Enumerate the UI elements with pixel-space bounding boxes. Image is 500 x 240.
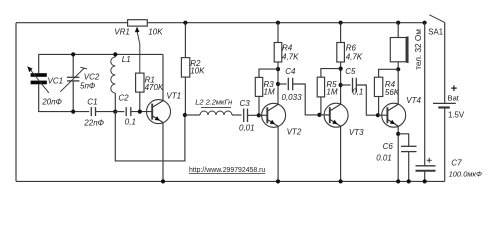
label R4 [282, 43, 293, 52]
svg-text:100.0мкФ: 100.0мкФ [449, 170, 482, 179]
node L1 top junction [113, 52, 117, 56]
label Bat [448, 94, 460, 103]
label C4 [285, 67, 296, 76]
capacitor C7 (electrolytic, polarity +) [416, 158, 436, 171]
svg-text:VR1: VR1 [114, 28, 130, 37]
svg-text:0,01: 0,01 [239, 123, 255, 132]
label R5 value 1M [326, 87, 337, 96]
node C7 ground junction [423, 179, 427, 183]
label VT2 [287, 128, 302, 137]
wire C6 bottom lead [408, 152, 410, 182]
svg-text:0.01: 0.01 [376, 153, 392, 162]
label C2 value 0,1 [125, 117, 136, 126]
wire VT2 base wire [259, 114, 268, 116]
wire VT4 emitter [397, 126, 399, 181]
svg-text:L2 2.2мкГн: L2 2.2мкГн [195, 97, 232, 106]
wire C7 bottom lead [424, 171, 426, 182]
svg-text:C6: C6 [383, 142, 394, 151]
node C6 ground junction [407, 179, 411, 183]
node VT4 emitter/C6 junction [396, 132, 400, 136]
wire C7 top lead [424, 23, 426, 166]
inductor L2 [185, 108, 242, 115]
svg-text:тел. 32 Ом: тел. 32 Ом [414, 29, 423, 70]
node VT3 base junction [317, 113, 321, 117]
label VT1 [166, 92, 181, 101]
node R1/base junction [138, 110, 142, 114]
wire VT3 base wire [319, 114, 329, 116]
label VR1 [114, 28, 130, 37]
node VC2 top junction [71, 52, 75, 56]
wire R2 bottom lead [184, 77, 186, 115]
svg-text:C5: C5 [345, 67, 356, 76]
resistor R3 (1M) [255, 77, 262, 96]
wire VT4 base wire [378, 114, 388, 116]
node C1/C2/L1 junction [113, 110, 117, 114]
variable capacitor VC1 [27, 66, 49, 93]
label VC1 [48, 76, 64, 85]
label VC2 [84, 72, 100, 81]
label R6 [346, 43, 357, 52]
node R4 rail junction [276, 21, 280, 25]
label C3 [240, 99, 251, 108]
svg-text:1M: 1M [264, 87, 275, 96]
label R2 [190, 59, 201, 68]
wire R5 bottom lead [320, 97, 322, 115]
label R2 value 10K [190, 66, 205, 75]
label R6 value 4,7K [346, 52, 363, 61]
wire R4 bottom lead [378, 97, 380, 116]
label C1 [87, 98, 97, 107]
wire tank bottom [39, 84, 90, 111]
label R1 value 470K [145, 83, 164, 92]
transistor VT2 [262, 103, 286, 181]
svg-text:C1: C1 [87, 98, 97, 107]
capacitor C2 [115, 107, 152, 116]
svg-text:VT4: VT4 [406, 96, 421, 105]
label C7 [451, 158, 462, 167]
wire left border [15, 23, 17, 182]
svg-text:VT3: VT3 [349, 128, 364, 137]
label SA1 [428, 27, 443, 36]
svg-text:4,7K: 4,7K [282, 52, 299, 61]
svg-text:20пФ: 20пФ [41, 97, 62, 106]
capacitor C4 [288, 78, 292, 91]
wire R3 branch [259, 69, 278, 77]
capacitor C6 [401, 146, 417, 151]
svg-text:VT2: VT2 [287, 128, 302, 137]
svg-text:4,7K: 4,7K [346, 52, 363, 61]
node VT3 collector/R5 junction [339, 67, 343, 71]
node VT1 emitter ground junction [161, 179, 165, 183]
capacitor C3 [244, 109, 259, 123]
wire C6 top lead [398, 134, 409, 146]
wire battery bottom lead [444, 108, 446, 182]
svg-text:470K: 470K [145, 83, 164, 92]
svg-text:R4: R4 [282, 43, 293, 52]
svg-text:0,033: 0,033 [282, 93, 303, 102]
label 1.5V [448, 111, 465, 120]
resistor R6 (4,7K) [337, 43, 345, 63]
wire R5 branch [321, 69, 341, 78]
node VT2 collector/C4 junction [276, 82, 280, 86]
node VT4 emitter ground junction [396, 179, 400, 183]
label R4 value 56K [385, 88, 400, 97]
battery Bat 1.5V [433, 103, 456, 107]
svg-text:C4: C4 [285, 67, 296, 76]
node VT3 emitter ground junction [339, 179, 343, 183]
label R3 value 1M [264, 87, 275, 96]
wire top +V rail [16, 22, 425, 24]
label C5 [345, 67, 356, 76]
label C6 value 0.01 [376, 153, 392, 162]
capacitor C1 [91, 107, 115, 116]
svg-text:0,1: 0,1 [125, 117, 136, 126]
svg-text:0,1: 0,1 [352, 87, 363, 96]
node VC2 bottom junction [71, 110, 75, 114]
label R4 value 4,7K [282, 52, 299, 61]
transistor VT3 [324, 103, 348, 181]
wire R4(56K) branch [379, 69, 399, 77]
node R6 rail junction [339, 21, 343, 25]
switch SA1 lever [429, 15, 444, 23]
svg-text:56K: 56K [385, 88, 400, 97]
label battery + [451, 83, 457, 95]
svg-text:R6: R6 [346, 43, 357, 52]
label C4 value 0,033 [282, 93, 303, 102]
wire bottom ground rail [16, 180, 445, 182]
node VT2 emitter ground junction [276, 179, 280, 183]
node SA1 left contact [423, 21, 427, 25]
svg-text:VT1: VT1 [166, 92, 181, 101]
wire battery top lead [444, 22, 446, 103]
label VC2 value 5пФ [80, 82, 96, 91]
label L2 value [195, 97, 232, 106]
node VT2 base junction [257, 113, 261, 117]
wire R6 lead [340, 23, 342, 43]
label L1 [122, 55, 131, 64]
node VT2 collector/R3 junction [276, 67, 280, 71]
node VT4 collector/R4 junction [396, 67, 400, 71]
svg-text:10K: 10K [190, 66, 205, 75]
svg-text:http://www.299792458.ru: http://www.299792458.ru [189, 167, 265, 174]
svg-text:Bat: Bat [448, 94, 460, 103]
wire C4 to VT3 base [292, 84, 319, 115]
label C7 value 100.0мкФ [449, 170, 482, 179]
svg-text:SA1: SA1 [428, 27, 443, 36]
wire VT2 collector [277, 62, 279, 104]
node R2 top rail junction [183, 21, 187, 25]
resistor R5 (1M) [317, 77, 324, 97]
wire C4 left [278, 83, 287, 85]
label C2 [118, 94, 129, 103]
wire C5 to VT4 base [356, 85, 377, 115]
label VT3 [349, 128, 364, 137]
svg-text:1.5V: 1.5V [448, 111, 465, 120]
label R1 [145, 76, 155, 85]
svg-text:L1: L1 [122, 55, 131, 64]
label VC1 value 20пФ [41, 97, 62, 106]
transistor VT4 [382, 103, 406, 127]
svg-text:C2: C2 [118, 94, 129, 103]
trimmer capacitor VC2 [60, 54, 87, 111]
wire VT4 collector [397, 69, 399, 104]
label C1 value 22пФ [83, 119, 104, 128]
wire tank top [39, 54, 163, 73]
svg-text:1M: 1M [326, 87, 337, 96]
watermark link [189, 167, 265, 174]
label C5 value 0,1 [352, 87, 363, 96]
wire VT3 collector [340, 62, 342, 104]
svg-text:C7: C7 [451, 158, 462, 167]
label тел. 32 Ом [414, 29, 423, 70]
label R4 (56K) [385, 80, 396, 89]
svg-text:10K: 10K [148, 28, 163, 37]
transistor VT1 [147, 54, 171, 181]
wire phone top lead [397, 23, 399, 38]
wire R2 top lead [184, 23, 186, 58]
node R2/L2/return junction [183, 113, 187, 117]
label VT4 [406, 96, 421, 105]
node VT4 base junction [376, 113, 380, 117]
svg-text:VC2: VC2 [84, 72, 100, 81]
svg-text:22пФ: 22пФ [83, 119, 104, 128]
svg-text:C3: C3 [240, 99, 251, 108]
label VR1 value 10K [148, 28, 163, 37]
wire tank return [115, 112, 185, 161]
resistor R4 (4,7K) [274, 43, 282, 63]
resistor R1 [136, 73, 144, 112]
node phone rail junction [396, 21, 400, 25]
potentiometer VR1 with wiper arrow [128, 20, 148, 73]
headphone BF (тел. 32 Ом) [390, 36, 407, 63]
label R3 [264, 80, 275, 89]
label C6 [383, 142, 394, 151]
svg-text:VC1: VC1 [48, 76, 64, 85]
svg-text:5пФ: 5пФ [80, 82, 96, 91]
resistor R4 (56K) [374, 77, 382, 96]
label R5 [326, 80, 337, 89]
inductor L1 [111, 54, 116, 111]
node VT3 collector/C5 junction [339, 83, 343, 87]
resistor R2 [181, 58, 189, 78]
wire R4 lead [277, 23, 279, 43]
label C3 value 0,01 [239, 123, 255, 132]
wire phone bottom lead [397, 62, 399, 70]
capacitor C5 [341, 78, 357, 93]
wire R3 bottom lead [258, 96, 260, 115]
